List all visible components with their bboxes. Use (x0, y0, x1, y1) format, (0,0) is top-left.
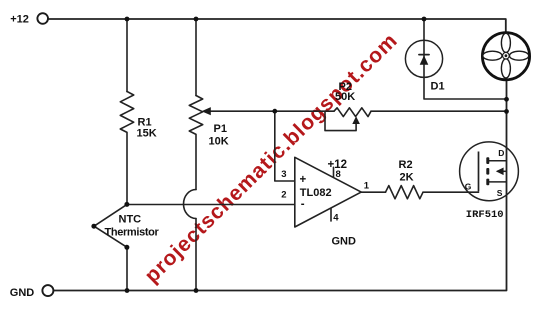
svg-text:D: D (498, 148, 504, 158)
svg-text:+12: +12 (10, 13, 29, 25)
svg-text:S: S (497, 188, 503, 198)
svg-text:2: 2 (281, 190, 286, 201)
svg-text:10K: 10K (209, 136, 229, 148)
svg-text:IRF510: IRF510 (466, 209, 504, 221)
svg-text:-: - (301, 199, 305, 211)
svg-text:D1: D1 (431, 80, 445, 92)
svg-text:NTC: NTC (119, 213, 142, 225)
svg-text:8: 8 (336, 169, 341, 180)
svg-text:4: 4 (333, 212, 339, 223)
svg-text:+: + (300, 174, 307, 186)
svg-text:G: G (465, 181, 472, 191)
svg-text:50K: 50K (335, 91, 355, 103)
svg-text:TL082: TL082 (300, 187, 332, 199)
svg-text:1: 1 (364, 181, 370, 192)
svg-text:P1: P1 (214, 123, 227, 135)
svg-text:GND: GND (332, 235, 357, 247)
svg-text:2K: 2K (400, 171, 414, 183)
svg-text:3: 3 (281, 169, 286, 180)
svg-text:Thermistor: Thermistor (105, 226, 160, 238)
svg-text:15K: 15K (137, 128, 157, 140)
svg-text:R2: R2 (399, 159, 413, 171)
svg-text:GND: GND (10, 287, 35, 299)
